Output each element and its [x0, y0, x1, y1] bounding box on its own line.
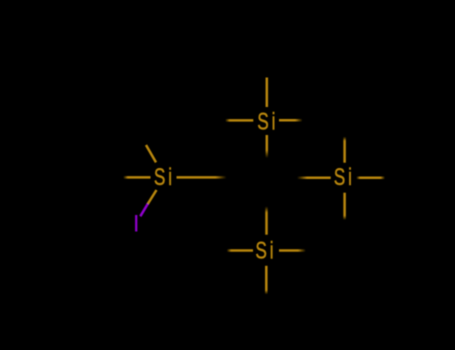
bond Si2 left methyl [226, 119, 254, 122]
svg-text:Si: Si [255, 238, 276, 264]
svg-text:Si: Si [257, 109, 278, 135]
bond Si1-I purple half [140, 204, 148, 217]
bond Si3 upper methyl [343, 137, 346, 163]
svg-text:Si: Si [154, 164, 175, 190]
bond C-Si4 (central carbon to bottom silicon) [265, 206, 268, 234]
bond Si4 lower methyl [265, 266, 268, 294]
bond Si4 left methyl [227, 249, 253, 252]
svg-text:Si: Si [334, 164, 355, 190]
bond Si4 right methyl [279, 249, 305, 252]
bond Si2 right methyl [279, 119, 302, 122]
svg-text:I: I [133, 211, 140, 238]
bond C-Si1 (central carbon to left silicon) [177, 176, 227, 179]
bond Si3 right methyl [357, 176, 385, 179]
bond Si1-I gold half [148, 190, 157, 204]
bond Si1 upper methyl [146, 145, 156, 162]
bond Si3 lower methyl [343, 193, 346, 220]
bond Si1 left methyl [124, 176, 151, 179]
bond C-Si3 (central carbon to right silicon) [297, 177, 331, 180]
bond C-Si2 (central carbon to top silicon) [266, 135, 269, 158]
bond Si2 upper methyl [266, 78, 269, 108]
